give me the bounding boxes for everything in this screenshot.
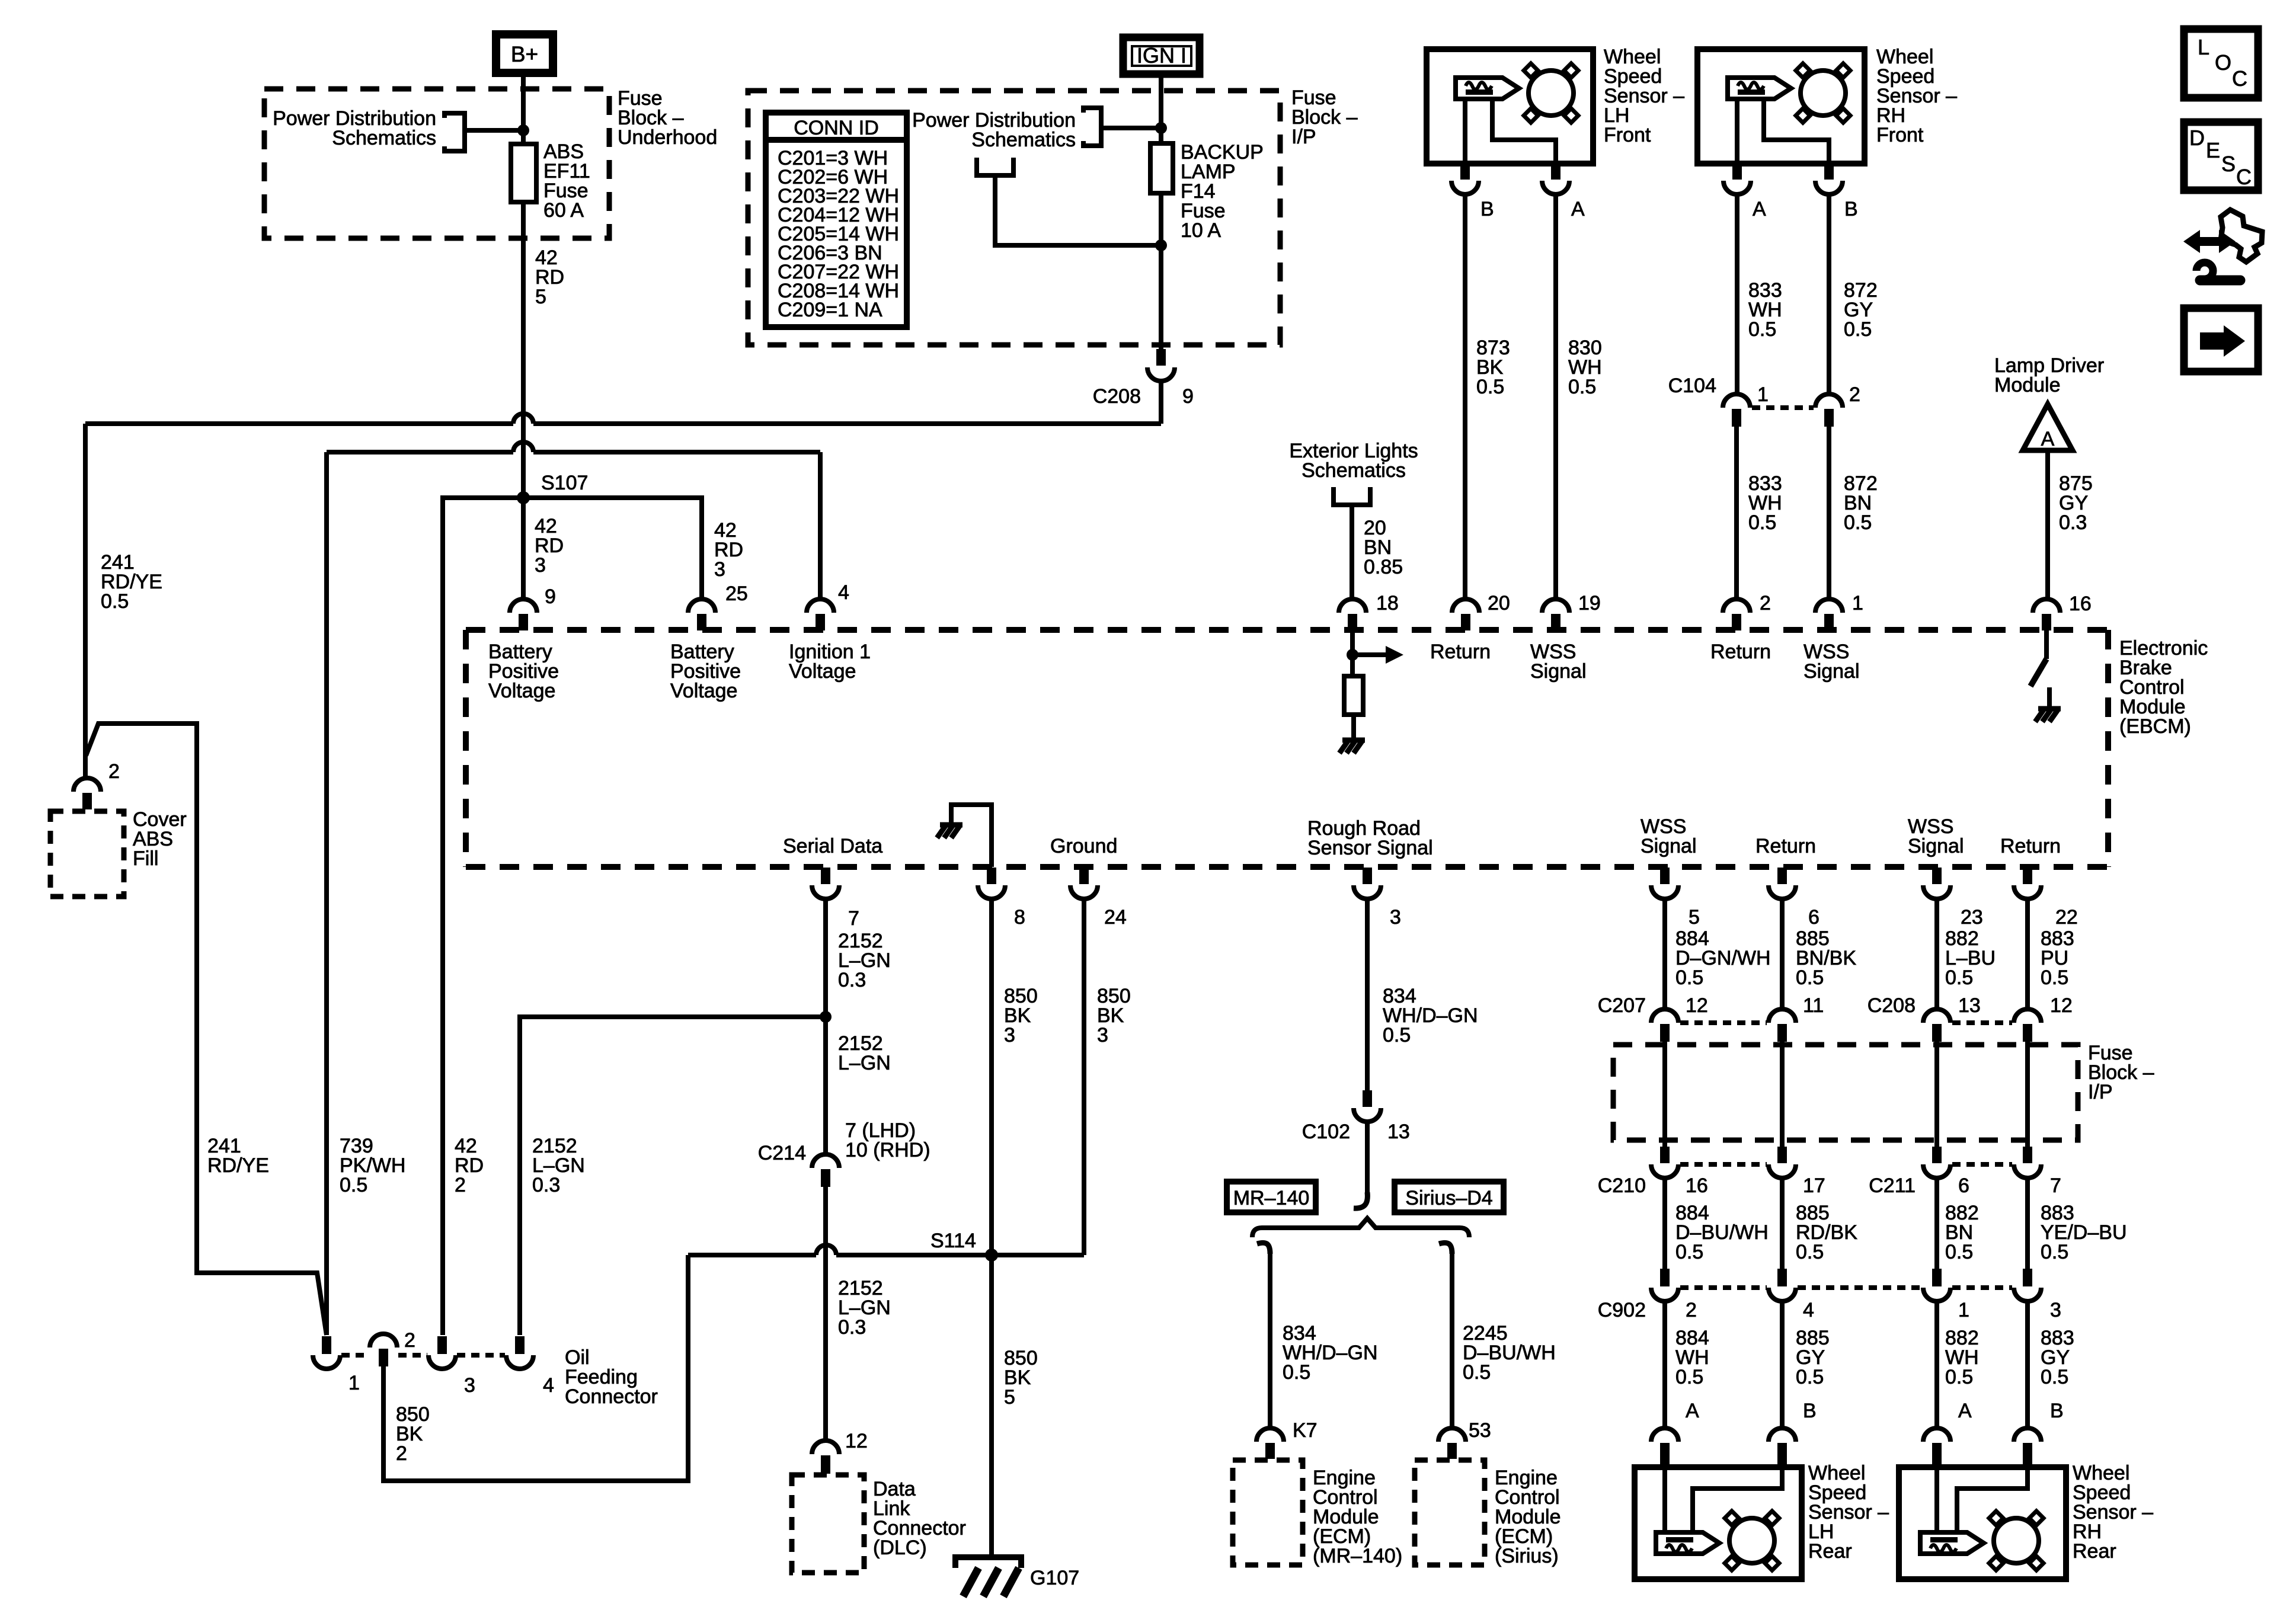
svg-text:0.5: 0.5	[1748, 511, 1776, 534]
svg-text:(MR–140): (MR–140)	[1313, 1545, 1402, 1567]
wire 850 BK 3 pin 8 to G107	[989, 899, 994, 1557]
splice S114	[985, 1249, 998, 1262]
svg-text:Voltage: Voltage	[670, 680, 737, 702]
sensor element (pickup + tone ring)	[1920, 1532, 1984, 1554]
pigtail left branch	[1257, 1243, 1270, 1254]
connector C208 pin 12	[2014, 1009, 2041, 1023]
svg-text:Underhood: Underhood	[618, 126, 717, 149]
icon DESC box	[2184, 122, 2258, 190]
EBCM pin 18 connector	[1339, 599, 1366, 613]
svg-text:S107: S107	[541, 472, 588, 494]
svg-text:A: A	[1958, 1400, 1972, 1422]
svg-text:Signal: Signal	[1803, 660, 1860, 683]
wire 872 BN 0.5 (lower)	[1827, 427, 1831, 599]
svg-text:11: 11	[1803, 994, 1824, 1017]
wire 885 RD/BK 0.5	[1780, 1178, 1785, 1269]
connector C214	[812, 1154, 839, 1168]
EBCM pin 24 connector (bottom)	[1079, 868, 1089, 884]
svg-text:Fill: Fill	[133, 847, 158, 870]
svg-text:0.3: 0.3	[532, 1174, 560, 1196]
connector oil feeding pin 1	[322, 1336, 331, 1354]
svg-text:7: 7	[848, 907, 859, 930]
svg-text:4: 4	[1803, 1299, 1814, 1321]
svg-text:I/P: I/P	[2088, 1081, 2113, 1103]
wire hop over serial data wire	[816, 1245, 836, 1255]
connector B (RH front)	[1824, 164, 1834, 180]
svg-text:S: S	[2221, 152, 2236, 176]
svg-text:12: 12	[845, 1430, 868, 1452]
svg-text:Serial Data: Serial Data	[783, 835, 882, 857]
EBCM pin 23 connector (bottom)	[1932, 868, 1942, 884]
svg-text:Ground: Ground	[1050, 835, 1117, 857]
switch lever internal pin 16	[2030, 659, 2046, 686]
svg-text:25: 25	[725, 582, 748, 605]
svg-text:Schematics: Schematics	[1302, 459, 1406, 482]
svg-text:L: L	[2198, 35, 2209, 59]
svg-text:B: B	[2050, 1400, 2064, 1422]
svg-text:A: A	[1571, 198, 1585, 220]
wire resistor to ground	[1351, 715, 1356, 740]
wire S114 horizontal run	[688, 1253, 816, 1257]
connector oil feeding pin 2	[370, 1334, 397, 1347]
svg-text:0.5: 0.5	[1568, 376, 1596, 398]
wire 830 WH 0.5	[1553, 194, 1558, 599]
wire 833 WH 0.5 (upper)	[1735, 194, 1739, 394]
dashed link C208	[1952, 1020, 2012, 1025]
svg-text:CONN ID: CONN ID	[794, 117, 879, 139]
EBCM pin 25 connector	[688, 599, 715, 613]
svg-text:7: 7	[2050, 1174, 2061, 1197]
wire internal RH front B	[1764, 99, 1829, 164]
wire bracket to B+ feed	[465, 128, 523, 133]
icon arrow box	[2184, 308, 2258, 372]
svg-text:2: 2	[1686, 1299, 1697, 1321]
svg-text:Return: Return	[1430, 641, 1491, 663]
svg-text:0.5: 0.5	[1945, 1366, 1973, 1388]
power symbol B+	[496, 34, 553, 73]
connector C211 pin 7	[2023, 1147, 2032, 1163]
wire internal RH front A	[1735, 99, 1739, 164]
svg-text:0.5: 0.5	[1796, 1241, 1824, 1263]
svg-text:0.5: 0.5	[101, 590, 129, 613]
svg-text:(Sirius): (Sirius)	[1495, 1545, 1559, 1567]
svg-text:0.3: 0.3	[2059, 511, 2087, 534]
wire lower bracket to junction below fuse	[995, 175, 1161, 245]
wire S107 down to pin 9	[521, 498, 526, 599]
svg-text:0.5: 0.5	[1675, 1241, 1703, 1263]
svg-text:10 A: 10 A	[1181, 219, 1221, 242]
svg-text:3: 3	[535, 554, 546, 577]
wire col1 through fuse block	[1662, 1042, 1667, 1147]
connector C208 pin 9	[1156, 349, 1166, 366]
component Wheel Speed Sensor LH Front box	[1427, 49, 1593, 164]
junction dot below backup lamp fuse	[1155, 239, 1167, 251]
component Wheel Speed Sensor LH Rear box	[1635, 1467, 1802, 1579]
svg-text:C214: C214	[758, 1142, 806, 1164]
junction dot on B+ feed	[517, 124, 529, 136]
svg-text:B: B	[1480, 198, 1494, 220]
wire 884 D-BU/WH 0.5	[1662, 1178, 1667, 1269]
wire internal LH front A	[1492, 99, 1556, 164]
svg-text:0.5: 0.5	[1796, 966, 1824, 989]
svg-text:B: B	[1844, 198, 1858, 220]
wire 875 GY 0.3	[2045, 450, 2050, 599]
svg-text:RD/YE: RD/YE	[207, 1154, 269, 1177]
component Data Link Connector dashed box	[792, 1475, 864, 1573]
connector C902 pin 3	[2023, 1269, 2032, 1286]
svg-text:Connector: Connector	[565, 1385, 658, 1408]
wire hop over B+ wire on line2	[513, 442, 533, 452]
wire 20 BN 0.85 to pin 18	[1350, 505, 1354, 599]
wire C208-9 down to horizontal run	[1159, 381, 1163, 424]
svg-text:2: 2	[396, 1442, 407, 1465]
svg-text:D: D	[2189, 126, 2205, 150]
svg-text:Return: Return	[2000, 835, 2061, 857]
connector C207 pin 12	[1651, 1009, 1678, 1023]
wire 883 GY 0.5	[2025, 1301, 2030, 1428]
svg-text:1: 1	[1852, 592, 1863, 614]
wire col2 through fuse block	[1780, 1042, 1785, 1147]
svg-text:Return: Return	[1710, 641, 1771, 663]
EBCM pin 8 connector (bottom)	[987, 868, 996, 884]
fuse block underhood dashed box	[264, 89, 609, 238]
fuse block I/P dashed box (top)	[748, 91, 1280, 345]
svg-text:C104: C104	[1668, 375, 1716, 397]
wire far-left vertical 241 RD/YE down to Cover ABS Fill	[83, 424, 88, 778]
wire 885 BN/BK 0.5	[1780, 899, 1785, 1009]
svg-text:16: 16	[2069, 593, 2092, 615]
EBCM pin 1 connector	[1815, 599, 1843, 613]
svg-text:4: 4	[543, 1374, 554, 1397]
svg-text:1: 1	[1958, 1299, 1969, 1321]
svg-text:0.5: 0.5	[340, 1174, 367, 1196]
svg-text:5: 5	[1004, 1386, 1015, 1409]
wire internal ground link to pin 8	[951, 805, 992, 867]
svg-text:IGN I: IGN I	[1137, 43, 1187, 68]
svg-text:8: 8	[1014, 906, 1025, 929]
svg-text:3: 3	[1004, 1024, 1015, 1046]
svg-text:3: 3	[1390, 906, 1401, 929]
svg-text:A: A	[2041, 428, 2055, 450]
brace splitting harness variants	[1252, 1218, 1469, 1237]
ground symbol (EBCM internal, pin 8)	[940, 822, 962, 828]
svg-text:12: 12	[2050, 994, 2073, 1017]
splice S107	[517, 491, 530, 504]
EBCM pin 7 connector (bottom)	[821, 868, 830, 884]
svg-text:19: 19	[1578, 592, 1601, 614]
svg-text:2: 2	[404, 1329, 415, 1352]
EBCM pin 16 connector	[2033, 599, 2060, 613]
svg-text:13: 13	[1387, 1121, 1410, 1143]
svg-text:0.5: 0.5	[1463, 1361, 1491, 1384]
svg-text:0.5: 0.5	[1844, 511, 1872, 534]
svg-text:Signal: Signal	[1530, 660, 1587, 683]
sensor element (pickup + tone ring)	[1656, 1532, 1719, 1554]
dashed link C207	[1680, 1020, 1767, 1025]
svg-text:4: 4	[838, 581, 849, 604]
svg-text:Rear: Rear	[1808, 1540, 1852, 1563]
fuse block I/P dashed box (lower)	[1613, 1045, 2078, 1140]
svg-text:Front: Front	[1876, 124, 1924, 146]
connector B (LH front)	[1460, 164, 1470, 180]
svg-text:C: C	[2236, 165, 2252, 189]
wire internal RH rear B	[1957, 1467, 2028, 1532]
svg-text:0.5: 0.5	[1383, 1024, 1411, 1046]
wire 873 BK 0.5	[1463, 194, 1467, 599]
svg-text:3: 3	[2050, 1299, 2061, 1321]
wire internal RH rear A	[1934, 1467, 1939, 1532]
svg-text:L–GN: L–GN	[838, 1052, 891, 1074]
svg-text:0.5: 0.5	[1796, 1366, 1824, 1388]
svg-text:B: B	[1803, 1400, 1817, 1422]
wire pin4 drop (Ignition 1 Voltage)	[818, 452, 823, 599]
wire 834 WH/D-GN 0.5 to K7	[1268, 1252, 1272, 1428]
svg-text:O: O	[2215, 50, 2231, 75]
svg-text:12: 12	[1686, 994, 1708, 1017]
svg-text:B+: B+	[511, 42, 538, 66]
dashed links oil feeding connector	[341, 1353, 369, 1358]
EBCM pin 4 connector	[807, 599, 834, 613]
EBCM pin 6 connector (bottom)	[1777, 868, 1787, 884]
bracket Exterior Lights Schematics	[1334, 487, 1370, 505]
svg-text:13: 13	[1958, 994, 1981, 1017]
component ECM (Sirius) dashed box	[1415, 1460, 1485, 1565]
EBCM pin 5 connector (bottom)	[1660, 868, 1670, 884]
svg-text:16: 16	[1686, 1174, 1708, 1197]
wire 882 BN 0.5	[1934, 1178, 1939, 1269]
wire 850 BK 3 pin 24 to S114	[1082, 899, 1086, 1255]
ground G107	[955, 1557, 1021, 1568]
svg-text:C102: C102	[1302, 1121, 1350, 1143]
wire 850 BK 2 from oil pin 2 loop	[383, 1255, 688, 1481]
wire bracket to IGN feed	[1101, 126, 1161, 130]
svg-text:24: 24	[1104, 906, 1127, 929]
svg-text:23: 23	[1961, 906, 1983, 929]
wire S107 right arm to pin 25	[523, 498, 702, 599]
wire 885 GY 0.5	[1780, 1301, 1785, 1428]
connector C210 pin 17	[1777, 1147, 1787, 1163]
connector oil feeding pin 3	[437, 1336, 447, 1354]
junction dot serial data	[820, 1011, 832, 1023]
svg-text:0.5: 0.5	[1748, 318, 1776, 341]
svg-text:0.5: 0.5	[1945, 1241, 1973, 1263]
connector C211 pin 6	[1932, 1147, 1942, 1163]
svg-text:18: 18	[1376, 592, 1399, 614]
power symbol IGN I	[1123, 37, 1200, 74]
svg-text:C210: C210	[1598, 1174, 1646, 1197]
icon wrench/part (double arrow with component outline and wrench)	[2221, 210, 2262, 262]
wire C102 down to branch	[1365, 1122, 1370, 1201]
svg-text:(EBCM): (EBCM)	[2119, 715, 2191, 738]
svg-text:C211: C211	[1869, 1174, 1916, 1197]
svg-text:Voltage: Voltage	[789, 660, 856, 683]
svg-text:Front: Front	[1604, 124, 1651, 146]
connector C902 pin 1	[1932, 1269, 1942, 1286]
svg-text:Rear: Rear	[2073, 1540, 2116, 1563]
svg-text:0.5: 0.5	[1476, 376, 1504, 398]
dashed link C104	[1752, 405, 1814, 410]
svg-text:0.5: 0.5	[1675, 1366, 1703, 1388]
bracket to Power Distribution Schematics (underhood)	[445, 113, 465, 151]
switch contact wire	[2047, 687, 2052, 709]
svg-text:60 A: 60 A	[543, 199, 584, 222]
dashed link C210	[1680, 1162, 1767, 1167]
component Cover ABS Fill dashed box	[50, 811, 124, 897]
svg-text:C207: C207	[1598, 994, 1646, 1017]
wire horizontal run from C208-9 to left edge (241 circuit)	[533, 421, 1161, 426]
svg-text:C208: C208	[1093, 385, 1141, 408]
svg-text:Schematics: Schematics	[971, 129, 1076, 151]
wire col4 through fuse block	[2025, 1042, 2030, 1147]
svg-text:C208: C208	[1868, 994, 1916, 1017]
connector C207 pin 11	[1769, 1009, 1796, 1023]
bracket (lower) Power Distribution Schematics I/P	[977, 158, 1013, 175]
svg-text:Sensor Signal: Sensor Signal	[1307, 837, 1433, 859]
bracket to Power Distribution Schematics (I/P)	[1083, 108, 1101, 146]
component Lamp Driver Module triangle	[2023, 404, 2073, 450]
fuse BACKUP LAMP F14 10A	[1150, 143, 1173, 193]
wire IGN I down through fuse to C208	[1159, 73, 1163, 349]
EBCM pin 9 connector	[510, 599, 537, 613]
svg-text:0.3: 0.3	[838, 969, 866, 991]
EBCM pin 20 connector	[1452, 599, 1479, 613]
connector A (RH front)	[1732, 164, 1742, 180]
wire col3 through fuse block	[1934, 1042, 1939, 1147]
svg-text:20: 20	[1488, 592, 1510, 614]
junction dot internal pin 18	[1347, 649, 1358, 661]
connector C104 pin 1	[1723, 394, 1750, 408]
connector C104 pin 2	[1815, 394, 1843, 408]
svg-text:Sirius–D4: Sirius–D4	[1405, 1187, 1492, 1209]
wire internal LH rear B	[1693, 1467, 1782, 1532]
component Wheel Speed Sensor RH Rear box	[1899, 1467, 2066, 1579]
svg-text:6: 6	[1958, 1174, 1969, 1197]
wire 883 YE/D-BU 0.5	[2025, 1178, 2030, 1269]
ground symbol (EBCM internal, pin 18)	[1342, 738, 1365, 743]
wire 884 WH 0.5	[1662, 1301, 1667, 1428]
wire 834 WH/D-GN 0.5 pin 3 to C102	[1365, 899, 1370, 1090]
dashed links C902	[1680, 1285, 1767, 1290]
svg-text:MR–140: MR–140	[1233, 1187, 1310, 1209]
svg-text:C902: C902	[1598, 1299, 1646, 1321]
svg-text:9: 9	[1182, 385, 1194, 408]
svg-text:0.3: 0.3	[838, 1316, 866, 1339]
sensor element (pickup + tone ring)	[1456, 78, 1519, 99]
svg-text:Signal: Signal	[1641, 835, 1697, 857]
svg-text:C209=1 NA: C209=1 NA	[778, 299, 882, 321]
svg-text:17: 17	[1803, 1174, 1825, 1197]
arrow internal (to right)	[1352, 652, 1387, 657]
ground symbol (EBCM internal, pin 16)	[2038, 706, 2061, 712]
svg-text:0.5: 0.5	[1283, 1361, 1310, 1384]
wire 884 D-GN/WH 0.5	[1662, 899, 1667, 1009]
wire branch diagonal to oil feeding circuit	[86, 724, 327, 1335]
svg-text:I/P: I/P	[1291, 126, 1316, 148]
svg-text:0.5: 0.5	[1675, 966, 1703, 989]
EBCM pin 19 connector	[1542, 599, 1569, 613]
wire 882 WH 0.5	[1934, 1301, 1939, 1428]
svg-text:(DLC): (DLC)	[873, 1537, 927, 1559]
label MR-140 box	[1227, 1182, 1316, 1212]
svg-text:S114: S114	[930, 1230, 976, 1252]
EBCM pin 3 connector (bottom)	[1363, 868, 1372, 884]
wire 883 PU 0.5	[2025, 899, 2030, 1009]
EBCM pin 22 connector (bottom)	[2023, 868, 2032, 884]
EBCM pin 2 connector	[1723, 599, 1750, 613]
svg-text:Voltage: Voltage	[488, 680, 555, 702]
svg-text:2: 2	[455, 1174, 466, 1196]
wire horizontal run 739 PK/WH to pin 4	[533, 450, 820, 454]
svg-text:K7: K7	[1293, 1419, 1318, 1442]
wire 872 GY 0.5 (upper)	[1827, 194, 1831, 394]
svg-text:E: E	[2206, 138, 2220, 162]
wire 882 L-BU 0.5	[1934, 899, 1939, 1009]
wire 2152 L-GN branch to oil feeding pin 4	[520, 1017, 826, 1335]
svg-text:0.85: 0.85	[1364, 556, 1403, 578]
svg-text:A: A	[1686, 1400, 1699, 1422]
svg-text:0.5: 0.5	[2041, 1366, 2068, 1388]
component ECM (MR-140) dashed box	[1233, 1460, 1303, 1565]
svg-text:53: 53	[1469, 1419, 1491, 1442]
svg-text:2: 2	[1849, 383, 1860, 406]
connector C102 pin 13	[1363, 1090, 1372, 1107]
wire 2152 L-GN from pin 7 to C214	[823, 899, 828, 1154]
resistor internal EBCM	[1344, 676, 1363, 715]
svg-text:5: 5	[535, 286, 546, 308]
svg-text:3: 3	[464, 1374, 475, 1397]
svg-text:Module: Module	[1994, 374, 2061, 396]
svg-text:6: 6	[1808, 906, 1819, 929]
fuse ABS EF11 60A	[511, 144, 536, 202]
svg-text:2: 2	[108, 760, 120, 783]
svg-text:1: 1	[348, 1372, 360, 1394]
pigtail curl at branch point	[1354, 1192, 1367, 1208]
svg-text:Signal: Signal	[1908, 835, 1964, 857]
svg-text:2: 2	[1760, 592, 1771, 614]
wire internal pin 16	[2044, 630, 2049, 659]
wire 739 PK/WH vertical down to oil feeding pin 1	[324, 452, 329, 1335]
svg-text:0.5: 0.5	[2041, 966, 2068, 989]
connector C902 pin 4	[1777, 1269, 1787, 1286]
svg-text:Schematics: Schematics	[332, 127, 436, 149]
svg-text:0.5: 0.5	[2041, 1241, 2068, 1263]
wire internal pin 18	[1350, 630, 1355, 676]
CONN ID table	[766, 113, 907, 327]
dashed link C211	[1952, 1162, 2012, 1167]
label Sirius-D4 box	[1395, 1182, 1504, 1212]
connector C210 pin 16	[1660, 1147, 1670, 1163]
svg-text:3: 3	[714, 558, 725, 581]
module EBCM dashed box	[466, 627, 2108, 633]
wire 833 WH 0.5 (lower)	[1734, 427, 1739, 599]
wire 2152 L-GN 0.3 to DLC	[823, 1187, 828, 1441]
svg-text:G107: G107	[1030, 1567, 1079, 1589]
svg-text:0.5: 0.5	[1844, 318, 1872, 341]
wire hop over B+ wire on line1	[513, 414, 533, 424]
icon LOC box	[2184, 29, 2258, 98]
svg-text:3: 3	[1097, 1024, 1108, 1046]
connector A (LH front)	[1551, 164, 1560, 180]
junction dot on IGN feed	[1155, 122, 1167, 134]
connector C208 pin 13	[1923, 1009, 1950, 1023]
svg-text:22: 22	[2055, 906, 2078, 929]
svg-text:C: C	[2232, 66, 2247, 91]
connector oil feeding pin 4	[515, 1336, 525, 1354]
wire 42 RD 5 from B+ through ABS fuse down to S107	[521, 73, 526, 498]
sensor element (pickup + tone ring)	[1728, 78, 1791, 99]
svg-text:9: 9	[545, 585, 556, 608]
connector C902 pin 2	[1660, 1269, 1670, 1286]
